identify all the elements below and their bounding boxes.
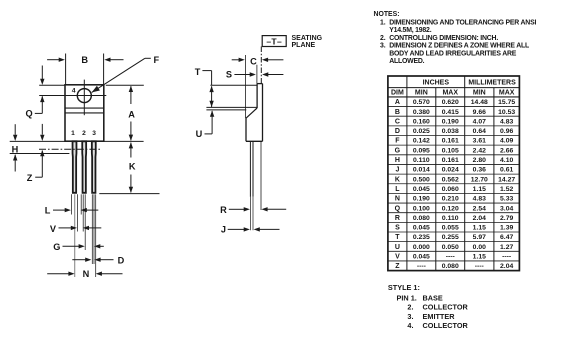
svg-text:0.110: 0.110 [413,157,430,164]
dimension L right arrow [81,208,87,212]
svg-text:2.54: 2.54 [473,205,486,212]
svg-text:A: A [395,99,400,106]
pin 3 outer extension line [95,194,97,277]
svg-text:4.83: 4.83 [473,196,486,203]
dimension C right arrow [262,58,268,62]
svg-text:0.100: 0.100 [413,205,430,212]
side view lead left edge [249,141,251,197]
svg-text:0.255: 0.255 [442,234,459,241]
svg-text:STYLE 1:: STYLE 1: [388,283,420,292]
svg-text:1.15: 1.15 [473,225,486,232]
svg-text:2.04: 2.04 [500,263,513,270]
svg-text:0.161: 0.161 [442,157,459,164]
table column lines [406,76,408,271]
svg-text:K: K [395,176,400,183]
reference line at body bottom [10,140,144,142]
svg-text:T: T [195,67,201,77]
side view lead right edge [252,141,254,197]
body top edge extension left [39,84,65,86]
svg-text:0.235: 0.235 [413,234,430,241]
pin 2 right edge extension line [82,194,84,231]
svg-text:0.025: 0.025 [413,128,430,135]
side view tab back face [262,84,264,142]
dimension B left arrow [47,59,59,61]
side view lead bottom extension R [260,141,262,210]
svg-text:----: ---- [446,254,455,261]
table row lines [388,106,520,108]
svg-text:R: R [220,205,227,215]
pin 1 lead [73,141,77,193]
pin 2 lead [82,141,86,193]
svg-text:0.000: 0.000 [413,244,430,251]
dimension D right arrow [94,258,100,262]
svg-text:MAX: MAX [442,90,458,97]
dimension S right arrow [262,72,268,76]
svg-text:0.105: 0.105 [442,147,459,154]
front view package body outline [65,85,104,141]
svg-text:0.415: 0.415 [442,109,459,116]
dimension Q leader elbow [35,112,43,114]
svg-text:DIM: DIM [391,90,404,97]
svg-text:MILLIMETERS: MILLIMETERS [468,80,516,87]
hole horizontal centerline [39,95,106,97]
reference line at lead tips [99,193,159,195]
svg-text:–T–: –T– [266,37,282,47]
svg-text:J: J [221,225,226,235]
pin 3 right edge extension line [93,194,95,264]
svg-text:4.: 4. [407,321,413,330]
svg-text:0.045: 0.045 [413,225,430,232]
svg-text:4.10: 4.10 [500,157,513,164]
dimension N left arrow [47,273,69,275]
svg-text:----: ---- [502,254,511,261]
svg-text:PIN 1.: PIN 1. [397,294,417,303]
svg-text:F: F [153,55,159,65]
dimension Q upper arrow [41,66,43,80]
svg-text:5.33: 5.33 [500,196,513,203]
svg-text:Z: Z [395,263,400,270]
svg-text:MIN: MIN [415,90,428,97]
svg-text:0.570: 0.570 [413,99,430,106]
dimension B extension line right [103,54,105,85]
hole vertical centerline [83,80,85,116]
svg-text:INCHES: INCHES [423,80,450,87]
side view lead extension lines [249,197,251,230]
svg-text:A: A [128,110,135,120]
svg-text:N: N [395,196,400,203]
side view tab top edge [257,83,262,85]
svg-text:ALLOWED.: ALLOWED. [389,58,424,65]
svg-text:K: K [129,161,136,171]
svg-text:2.79: 2.79 [500,215,513,222]
svg-text:1.27: 1.27 [500,244,513,251]
svg-text:3.04: 3.04 [500,205,513,212]
lead shoulder reference line left [10,153,70,155]
svg-text:4.07: 4.07 [473,118,486,125]
dimension H upper arrow [14,124,16,135]
svg-text:0.045: 0.045 [413,254,430,261]
svg-text:15.75: 15.75 [498,99,515,106]
dimension R left arrow [229,208,244,210]
svg-text:0.61: 0.61 [500,167,513,174]
svg-text:R: R [395,215,400,222]
svg-text:1.52: 1.52 [500,186,513,193]
svg-text:3: 3 [92,130,96,137]
pin 3 left edge extension line [91,194,93,264]
dimension R right arrow [261,207,267,211]
dimension K lower arrow [130,175,132,193]
svg-text:COLLECTOR: COLLECTOR [423,303,469,312]
svg-text:0.161: 0.161 [442,138,459,145]
seating plane dash-dot vertical line [260,47,262,84]
dimension C left arrow [232,59,239,61]
svg-text:L: L [395,186,400,193]
svg-text:G: G [53,242,60,252]
dimension G right arrow [94,244,100,248]
dimension V left arrow [59,227,72,229]
svg-text:0.64: 0.64 [473,128,486,135]
svg-text:DIMENSIONING AND TOLERANCING P: DIMENSIONING AND TOLERANCING PER ANSI [389,19,536,26]
svg-text:10.53: 10.53 [498,109,515,116]
svg-text:14.27: 14.27 [498,176,515,183]
dimension V right arrow [83,226,89,230]
svg-text:Q: Q [26,109,33,119]
right reference line at body top [106,84,144,86]
dimension L left arrow [53,209,65,211]
svg-text:0.014: 0.014 [413,167,430,174]
dimension B right arrow [104,58,110,62]
side view reference line tab top [210,84,257,86]
svg-text:U: U [395,244,400,251]
svg-text:D: D [395,128,400,135]
body step line 2 [65,112,104,114]
svg-text:0.045: 0.045 [413,186,430,193]
svg-text:H: H [12,144,19,154]
svg-text:0.038: 0.038 [442,128,459,135]
side view body front face [245,118,247,141]
dimension H lower arrow [13,154,17,160]
pin 1 right edge extension line [77,194,79,231]
dimension Z leader elbow [35,176,42,178]
svg-text:----: ---- [417,263,426,270]
svg-text:12.70: 12.70 [471,176,488,183]
svg-text:V: V [50,224,57,234]
dimension B extension line left [65,54,67,85]
svg-text:2: 2 [82,130,86,137]
dimension J left arrow [228,228,245,230]
svg-text:0.080: 0.080 [442,263,459,270]
svg-text:COLLECTOR: COLLECTOR [423,321,469,330]
svg-text:Y14.5M, 1982.: Y14.5M, 1982. [389,27,432,34]
svg-text:F: F [395,138,400,145]
svg-text:0.210: 0.210 [442,196,459,203]
svg-text:V: V [395,254,400,261]
svg-text:BODY AND LEAD IRREGULARITIES A: BODY AND LEAD IRREGULARITIES ARE [389,50,517,57]
svg-text:5.97: 5.97 [473,234,486,241]
dimension G left arrow [63,245,80,247]
svg-text:EMITTER: EMITTER [423,312,456,321]
svg-text:0.36: 0.36 [473,167,486,174]
svg-text:0.060: 0.060 [442,186,459,193]
svg-text:0.120: 0.120 [442,205,459,212]
svg-text:NOTES:: NOTES: [374,11,400,18]
pin 2 left edge extension line [80,194,82,214]
svg-text:3.: 3. [380,42,386,49]
dimension S left arrow [234,74,250,76]
svg-text:PLANE: PLANE [292,42,316,49]
svg-text:0.080: 0.080 [413,215,430,222]
pin 1 center extension line [74,194,76,277]
dimension Z lower arrow [40,150,44,156]
svg-text:2.80: 2.80 [473,157,486,164]
svg-text:CONTROLLING DIMENSION: INCH.: CONTROLLING DIMENSION: INCH. [389,35,498,42]
svg-text:0.190: 0.190 [442,118,459,125]
svg-text:3.61: 3.61 [473,138,486,145]
svg-text:0.380: 0.380 [413,109,430,116]
pin 2 center extension line [84,194,86,250]
svg-text:2.: 2. [380,35,386,42]
dimension C extension line [244,55,246,118]
svg-text:C: C [395,118,400,125]
svg-text:2.04: 2.04 [473,215,486,222]
svg-text:0.160: 0.160 [413,118,430,125]
dimension U leader elbow [205,133,213,135]
svg-text:0.110: 0.110 [442,215,459,222]
dimension T lower arrow [209,101,213,107]
body step line 1 [65,107,104,109]
svg-text:L: L [45,206,51,216]
mounting hole circle (pin 4 tab) [77,89,91,103]
svg-text:2.42: 2.42 [473,147,486,154]
svg-text:BASE: BASE [423,294,443,303]
dimension T leader elbow [202,70,211,72]
svg-text:Q: Q [395,205,401,212]
svg-text:DIMENSION Z DEFINES A ZONE WHE: DIMENSION Z DEFINES A ZONE WHERE ALL [389,42,529,49]
table header group row line [388,87,520,89]
svg-text:B: B [395,109,400,116]
side view tab front face [256,84,258,108]
svg-text:0.142: 0.142 [413,138,430,145]
dimension J right arrow [254,227,260,231]
svg-text:0.500: 0.500 [413,176,430,183]
svg-text:1: 1 [71,130,75,137]
dimension A lower arrow [130,122,132,141]
svg-text:C: C [250,57,257,67]
svg-text:S: S [226,70,232,80]
svg-text:MIN: MIN [473,90,486,97]
svg-text:6.47: 6.47 [500,234,513,241]
svg-text:T: T [395,234,400,241]
dimension Z upper arrow [41,124,43,135]
svg-text:U: U [196,129,203,139]
svg-text:H: H [395,157,400,164]
dimension F leader arrow to hole [92,58,145,92]
side view body bottom edge [246,140,263,142]
svg-text:14.48: 14.48 [471,99,488,106]
svg-text:1.39: 1.39 [500,225,513,232]
pin 1 lead edge extension line [70,194,72,214]
svg-text:0.562: 0.562 [442,176,459,183]
dimension table outer border [388,76,520,271]
side view reference line T bottom [206,106,257,108]
svg-text:1.15: 1.15 [473,254,486,261]
dimension S extension line [256,65,258,84]
svg-text:1.: 1. [380,19,386,26]
pin 3 lead [92,141,96,193]
svg-text:2.66: 2.66 [500,147,513,154]
table header min-max row line [388,96,520,98]
svg-text:9.66: 9.66 [473,109,486,116]
dimension A upper arrow [129,86,133,92]
svg-text:0.190: 0.190 [413,196,430,203]
svg-text:4.09: 4.09 [500,138,513,145]
seating plane datum box -T- [262,36,286,47]
svg-text:S: S [395,225,400,232]
svg-text:0.96: 0.96 [500,128,513,135]
svg-text:0.095: 0.095 [413,147,430,154]
dimension Q lower arrow [40,96,44,102]
svg-text:4: 4 [72,87,76,94]
svg-text:J: J [395,167,399,174]
dimension T upper arrow [209,86,213,92]
dimension N right arrow [96,272,102,276]
svg-text:0.620: 0.620 [442,99,459,106]
svg-text:2.: 2. [407,303,413,312]
svg-text:1.15: 1.15 [473,186,486,193]
seating plane dash-dot line front view [39,148,102,150]
dimension U arrow [210,111,214,117]
svg-text:0.055: 0.055 [442,225,459,232]
svg-text:Z: Z [27,173,33,183]
svg-text:0.024: 0.024 [442,167,459,174]
svg-text:MAX: MAX [499,90,515,97]
side view reference line U top [206,109,246,111]
svg-text:0.00: 0.00 [473,244,486,251]
svg-text:0.050: 0.050 [442,244,459,251]
dimension K upper arrow [129,142,133,148]
svg-text:3.: 3. [407,312,413,321]
dimension D left arrow [72,259,85,261]
svg-text:----: ---- [475,263,484,270]
side view step diagonal [246,108,257,118]
svg-text:G: G [395,147,401,154]
svg-text:D: D [118,255,125,265]
svg-text:B: B [81,55,88,65]
svg-text:N: N [83,269,90,279]
svg-text:4.83: 4.83 [500,118,513,125]
